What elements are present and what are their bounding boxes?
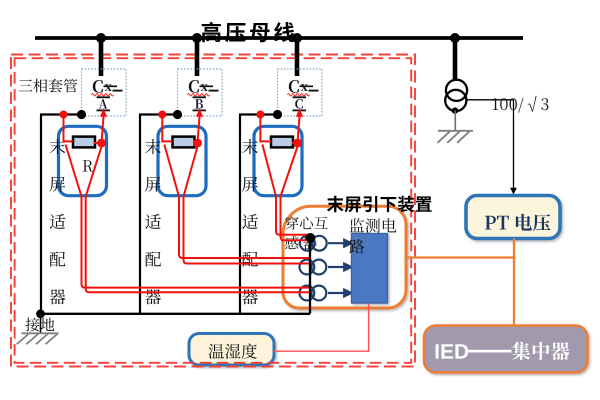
through-core CT 3 (linked circles) — [300, 286, 327, 301]
bushing capacitance box Cx phase C (dotted) — [278, 69, 323, 116]
bushing capacitance box Cx phase A (dotted) — [82, 69, 127, 116]
junction dot on busbar #3 — [292, 33, 302, 43]
arrow: CT 1 output to monitor — [328, 240, 351, 247]
underscore after Cx label B — [209, 90, 219, 92]
wire: V right leg unit 2 — [184, 147, 198, 197]
wire: adapter 2 top edge — [139, 113, 178, 115]
wire: adapter 2 left edge — [139, 115, 141, 314]
label IED——集中器 — [436, 342, 570, 361]
busbar 高压母线 (HV bus) — [35, 36, 523, 40]
wire: twisted pair entering CT — [281, 235, 311, 240]
underscore after Cx label A — [113, 90, 123, 92]
bar below phase letter B — [193, 109, 207, 111]
temperature-humidity box 温湿度 (cream rounded) — [189, 334, 274, 366]
wire: V right leg unit 3 — [281, 147, 298, 197]
wire: busbar drop to bushing CA — [99, 38, 104, 76]
wire: resistor 2 right to junction — [194, 142, 198, 144]
arrowhead: red arrow up at phase C — [296, 108, 303, 117]
strikethrough on Cx label A — [104, 85, 118, 87]
title 末屏引下装置 (end-screen lead-down device) — [327, 196, 432, 213]
wire: adapter 3 top edge — [239, 113, 278, 115]
resistor R1 — [73, 137, 95, 148]
arrowhead: red arrow up at phase B — [196, 108, 203, 117]
wire: red tap to resistor 1 left — [64, 115, 74, 142]
junction dot on busbar #1 — [96, 33, 106, 43]
end-screen adapter box 3 (blue rounded) — [254, 126, 302, 195]
node: ground junction dot — [36, 309, 45, 318]
wire: orange link device-to-PT riser — [405, 239, 515, 326]
arrow: CT 3 output to monitor — [328, 290, 351, 297]
strikethrough on Cx label C — [300, 85, 314, 87]
wire: red tap to resistor 3 left — [260, 115, 271, 142]
underscore after Cx label C — [309, 90, 319, 92]
wire: resistor 1 right to junction — [94, 142, 102, 144]
node: end-screen tap dot unit 2 — [173, 110, 182, 119]
wire: V left leg unit 1 — [66, 145, 82, 197]
junction dot on busbar #2 — [192, 33, 202, 43]
phase letter C — [295, 99, 303, 109]
title 高压母线 (HV busbar) — [202, 22, 295, 42]
enclosure: red double-dashed boundary of bushing zone (outer line) — [11, 55, 415, 367]
wire: twisted pair entering CT — [281, 288, 311, 293]
arrow: CT 2 output to monitor — [328, 264, 351, 271]
label 温湿度 — [209, 344, 257, 359]
wire: adapter 1 left edge — [40, 115, 42, 314]
phase letter A — [99, 99, 108, 108]
wire: busbar drop to bushing CB — [195, 38, 200, 76]
through-core CT 2 (linked circles) — [300, 260, 327, 275]
label 末屏适配器 (end-screen adapter) unit 1 — [50, 139, 66, 305]
wire: V left leg unit 3 — [262, 145, 276, 197]
node: CT primary top dot — [306, 233, 316, 243]
label 路 (monitor line2) — [349, 239, 364, 254]
end-screen adapter box 1 (blue rounded) — [59, 126, 107, 195]
red squiggle under Cx label A — [92, 94, 114, 96]
wire: V left leg unit 2 — [164, 145, 179, 197]
through-core CT 1 (linked circles) — [300, 236, 327, 251]
wire: red tap to resistor 2 left — [162, 115, 172, 142]
wire: busbar drop to bushing CC — [295, 38, 300, 76]
label 三相套管 (three-phase bushings) — [19, 79, 78, 93]
label 末屏适配器 (end-screen adapter) unit 3 — [242, 139, 258, 305]
node: red tap dot on adapter 2 top — [158, 111, 166, 119]
wire: twisted pair unit 2 line 2 — [184, 196, 312, 264]
node: end-screen tap dot unit 1 — [77, 110, 86, 119]
wire: adapter 3 left edge — [239, 115, 241, 314]
junction dot on busbar #4 — [450, 33, 460, 43]
bushing capacitance box Cx phase B (dotted) — [178, 69, 223, 116]
wire: twisted pair unit 3 line 2 — [281, 196, 312, 240]
monitor circuit box 监测电路 (blue) — [352, 234, 388, 304]
label 监测电 (monitor line1) — [350, 218, 397, 233]
wire: twisted pair unit 1 line 2 — [86, 196, 311, 292]
wire: resistor 3 right to junction — [292, 142, 298, 144]
wire: humidity sensor link (thin red) — [274, 304, 369, 352]
wire: ground bus bottom — [40, 313, 310, 315]
strikethrough on Cx label B — [200, 85, 214, 87]
label Cx of bushing B — [189, 80, 208, 93]
wire: twisted pair entering CT — [281, 258, 311, 264]
wire: red sense lead up to bushing A — [102, 117, 104, 144]
wire: twisted pair unit 2 line 1 — [179, 196, 311, 258]
red squiggle under Cx label B — [188, 94, 210, 96]
ground symbol left (hatched earth) — [17, 333, 59, 344]
device box 末屏引下装置 (orange rounded) — [283, 206, 406, 308]
label IED dash — [469, 350, 512, 353]
bar above phase letter B — [193, 96, 207, 98]
ground symbol right (hatched earth) — [438, 131, 474, 143]
label 100/√3 ratio — [493, 96, 549, 113]
PT voltage box (cream rounded) — [466, 196, 560, 239]
label R of resistor R1 — [83, 160, 93, 171]
label Cx of bushing A — [93, 80, 112, 93]
wire: transformer to earth — [454, 111, 456, 131]
end-screen adapter box 2 (blue rounded) — [158, 126, 206, 195]
bar above phase letter A — [97, 96, 111, 98]
bar above phase letter C — [293, 96, 307, 98]
label 穿心互 (through-core CT line1) — [285, 216, 328, 230]
wire: red sense lead up to bushing B — [198, 117, 200, 144]
label PT 电压 — [485, 214, 551, 231]
resistor R3 — [271, 137, 293, 148]
red squiggle under Cx label C — [288, 94, 310, 96]
node: red tap dot on adapter 1 top — [60, 111, 68, 119]
node: red junction dot at resistor 3 right — [293, 139, 302, 148]
node: red junction dot at resistor 2 right — [193, 139, 202, 148]
wire: transformer secondary to PT box — [467, 100, 514, 189]
wire: twisted pair unit 3 line 1 — [276, 196, 311, 235]
voltage transformer symbol (two circles) — [445, 80, 467, 111]
wire: twisted pair unit 1 line 1 — [82, 196, 312, 288]
resistor R2 — [173, 137, 195, 148]
node: red junction dot at resistor 1 right — [97, 139, 106, 148]
phase letter B — [195, 99, 203, 108]
bar below phase letter A — [97, 109, 111, 111]
wire: CT primary conductor down — [309, 237, 311, 314]
wire: red sense lead up to bushing C — [298, 117, 300, 144]
node: end-screen tap dot unit 3 — [273, 110, 282, 119]
node: red tap dot on adapter 3 top — [256, 111, 264, 119]
wire: busbar drop to PT transformer — [453, 38, 458, 81]
enclosure inner dashed line — [15, 58, 412, 363]
arrowhead: into PT box — [510, 188, 517, 195]
bar below phase letter C — [293, 109, 307, 111]
label Cx of bushing C — [289, 80, 308, 93]
wire: drop to earth — [40, 314, 42, 333]
node: transformer bottom dot — [452, 107, 458, 113]
label 末屏适配器 (end-screen adapter) unit 2 — [145, 139, 161, 305]
label 接地 (earth) — [25, 318, 54, 332]
wire: adapter 1 top edge — [40, 113, 82, 115]
arrowhead: red arrow up at phase A — [100, 108, 107, 117]
wire: V right leg unit 1 — [86, 147, 102, 197]
label 感器 (through-core CT line2) — [285, 236, 317, 249]
IED concentrator box (purple-grey rounded) — [424, 326, 588, 373]
